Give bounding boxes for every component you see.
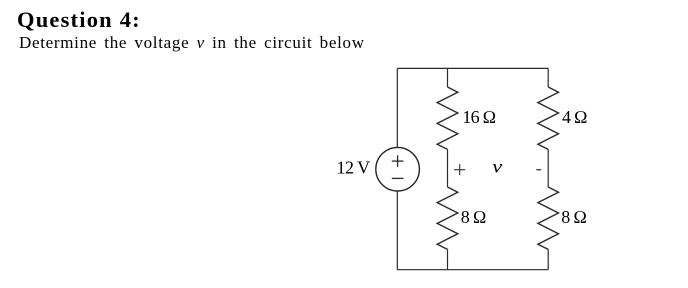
voltage source V1 (12 V independent source, circle body) xyxy=(376,147,420,191)
voltage source V1 minus terminal mark xyxy=(392,177,404,179)
resistor R1 16 ohm (middle branch upper zigzag) xyxy=(437,87,458,149)
svg-text:4 Ω: 4 Ω xyxy=(562,107,587,127)
resistor R2 8 ohm (middle branch lower zigzag) xyxy=(437,187,458,249)
wire: left branch lower segment (source V1 bottom terminal to bottom rail) xyxy=(396,191,398,270)
polarity plus mark of voltage v xyxy=(454,164,465,175)
wire: right branch top stub (top rail to resistor R3) xyxy=(547,68,549,87)
wire: left branch upper segment (top rail to source V1 top terminal) xyxy=(396,68,398,147)
voltage source V1 plus terminal mark xyxy=(392,155,404,167)
wire: top rail from node A (top-left) to node C (top-right) xyxy=(397,67,548,69)
wire: middle branch top stub (top rail to resistor R1) xyxy=(447,68,449,87)
svg-text:8 Ω: 8 Ω xyxy=(461,207,486,227)
wire: bottom rail from node B (bottom-left) to node D (bottom-right) xyxy=(397,269,548,271)
svg-text:16 Ω: 16 Ω xyxy=(462,107,495,127)
wire: right branch mid segment (between R3 and R4) xyxy=(547,149,549,187)
wire: middle branch mid segment (between R1 and R2) xyxy=(447,149,449,187)
wire: right branch bottom stub (resistor R4 to bottom rail) xyxy=(547,249,549,269)
svg-text:8 Ω: 8 Ω xyxy=(561,207,586,227)
polarity minus mark of voltage v xyxy=(536,169,541,171)
resistor R4 8 ohm (right branch lower zigzag) xyxy=(538,187,559,249)
title text xyxy=(17,7,141,33)
wire: middle branch bottom stub (resistor R2 to bottom rail) xyxy=(447,249,449,269)
subtitle text xyxy=(19,33,365,53)
resistor R3 4 ohm (right branch upper zigzag) xyxy=(538,87,559,149)
svg-text:v: v xyxy=(492,158,502,177)
svg-text:12 V: 12 V xyxy=(337,158,371,178)
